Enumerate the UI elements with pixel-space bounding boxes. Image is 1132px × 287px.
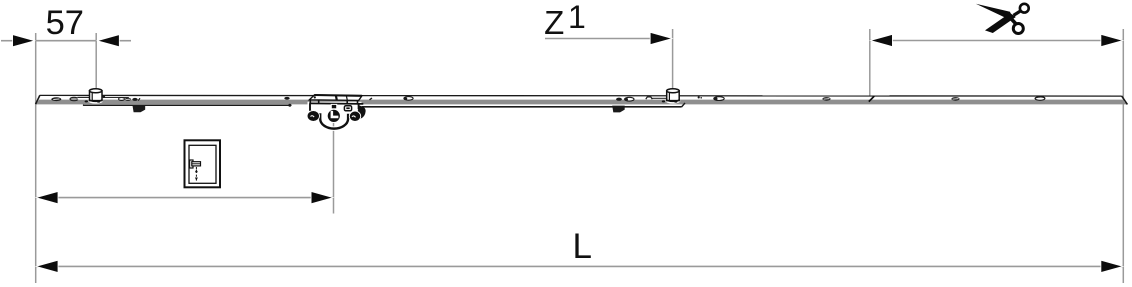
dimension line Z1 <box>545 38 671 40</box>
hole cluster B <box>119 98 140 101</box>
hole H (x955) <box>951 97 959 101</box>
dots right of pin2 <box>698 96 700 98</box>
rail top edge <box>40 94 1122 97</box>
mushroom pin 2 <box>662 89 681 104</box>
arrow lower-left dim, left <box>36 192 58 204</box>
rod tab 1 <box>133 106 146 113</box>
hole A1 <box>51 97 61 101</box>
slot left of pin1 <box>78 97 91 99</box>
hole I (x1040) <box>1035 97 1045 101</box>
base plate <box>309 102 363 105</box>
svg-text:L: L <box>573 227 592 266</box>
drive rod left segment <box>83 105 85 106</box>
slot right of pin1 <box>103 97 129 99</box>
arrow L right <box>1101 260 1123 272</box>
drive rod right segment <box>362 106 682 108</box>
dimension line L <box>36 265 1124 267</box>
hole G (x826) <box>822 97 830 101</box>
dot right of pin1 <box>103 96 106 99</box>
right roller <box>349 111 360 121</box>
slot left of pin2 <box>652 97 666 99</box>
hole C (x287) <box>284 97 289 100</box>
rod tab 2 <box>612 106 625 113</box>
white halo plate <box>308 102 362 110</box>
side walls <box>310 104 312 113</box>
hole E pair (x616-634) <box>616 97 634 101</box>
extension line cut-zone left <box>869 29 871 96</box>
cut slash <box>869 96 874 101</box>
detail icon cam <box>190 160 193 168</box>
rail left end cut <box>36 95 40 104</box>
svg-text:Z: Z <box>544 4 564 41</box>
arrow 57 right <box>97 35 119 47</box>
dimension line 57 <box>1 40 14 42</box>
svg-text:1: 1 <box>568 0 586 35</box>
extension line 57 right <box>95 33 97 88</box>
rail gray band (faceplate side face) <box>36 100 1128 105</box>
mushroom pin 1 <box>85 89 103 104</box>
extension line left (x=35.6 full height) <box>35 33 37 283</box>
extension line Z1 <box>672 29 674 89</box>
svg-text:57: 57 <box>46 4 84 42</box>
extension line gear center <box>333 121 335 214</box>
arrow lower-left dim, right <box>311 192 333 204</box>
mark right of gear <box>370 98 373 100</box>
scissors icon <box>976 4 1029 34</box>
arrow cut-zone right <box>1101 34 1123 46</box>
arrow cut-zone left <box>870 34 892 46</box>
hole D (x408) <box>404 97 413 101</box>
rail right end cut <box>1122 96 1128 105</box>
housing top face <box>309 95 362 100</box>
dimension line cut-zone <box>870 40 1123 42</box>
bump (x649) <box>646 97 653 99</box>
hole F (x719) <box>714 97 724 101</box>
extension line right (x=1123.3 full height) <box>1122 29 1124 283</box>
dimension line lower-left (to gear center) <box>36 197 334 199</box>
arrow 57 left <box>13 35 35 47</box>
hole A2 <box>70 97 78 100</box>
spindle block <box>331 104 336 108</box>
u-bail halo <box>320 113 348 128</box>
arrow Z1 <box>650 32 672 44</box>
detail box <box>185 140 221 187</box>
center wheel <box>327 109 340 122</box>
face divisions <box>336 95 337 100</box>
right guide lump <box>358 106 366 119</box>
base ticks <box>309 100 311 104</box>
left roller <box>307 111 319 122</box>
detail icon centerline <box>195 167 197 181</box>
gear assembly <box>307 95 366 129</box>
arrow L left <box>36 260 58 272</box>
u-bail <box>320 113 348 128</box>
clip <box>344 106 351 111</box>
